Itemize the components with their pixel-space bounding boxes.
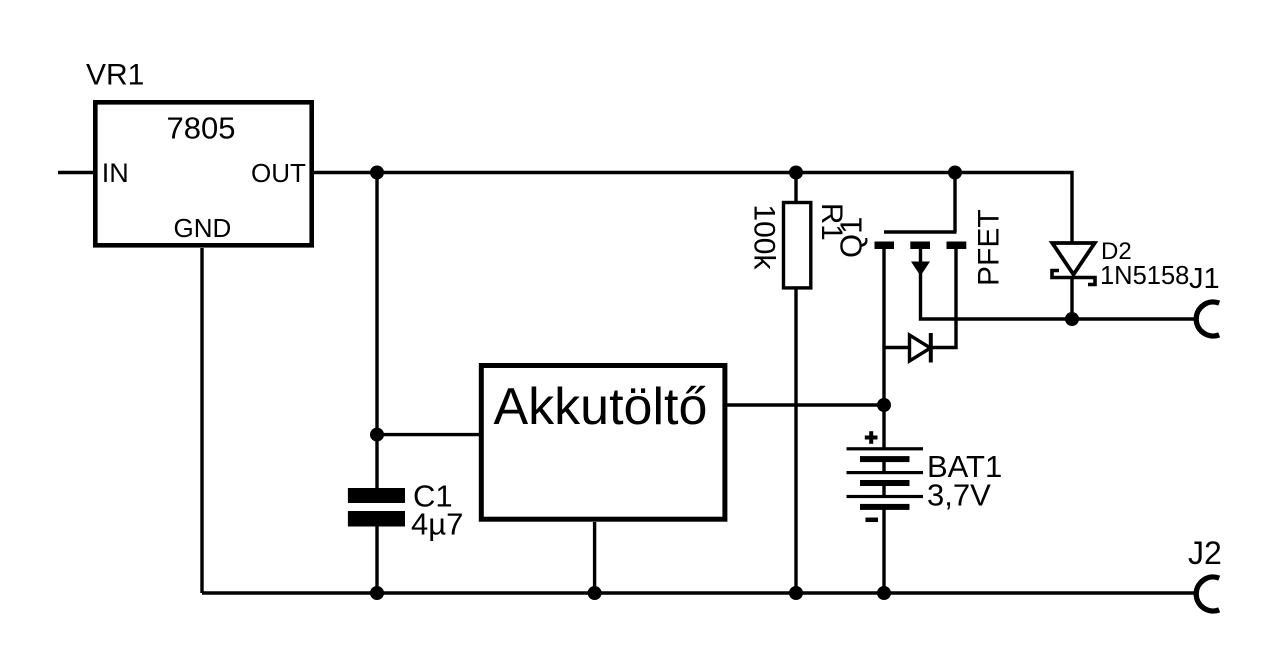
wire +5V rail from OUT	[314, 173, 1072, 244]
svg-text:D2: D2	[1101, 238, 1132, 265]
wire to Akkutolto input	[377, 433, 481, 436]
battery BAT1 short plate 3	[860, 504, 910, 510]
wire PFET drain lead	[882, 249, 885, 448]
wire battery bottom lead	[882, 510, 885, 594]
transistor Q1 PFET channel bar bulk	[910, 242, 930, 250]
charger box Akkutolto	[481, 366, 725, 520]
battery BAT1 long plate 1	[847, 447, 924, 450]
wire R1 top lead	[794, 173, 797, 203]
svg-text:Q1: Q1	[834, 217, 869, 258]
diode D2 triangle	[1052, 243, 1094, 275]
wire PFET source lead	[931, 249, 957, 348]
junction node ground C1	[370, 586, 384, 600]
junction node D2 output	[1065, 312, 1079, 326]
wire ground bus	[202, 591, 1196, 594]
wire C1 branch vertical	[375, 173, 378, 489]
svg-text:Akkutöltő: Akkutöltő	[494, 378, 708, 436]
junction node ground R1	[789, 586, 803, 600]
voltage regulator VR1 box	[95, 102, 311, 245]
junction node on rail at gate	[948, 166, 962, 180]
svg-text:VR1: VR1	[86, 59, 144, 92]
svg-text:OUT: OUT	[251, 158, 306, 188]
transistor Q1 PFET channel bar source	[947, 242, 967, 250]
transistor Q1 PFET gate line	[884, 230, 957, 233]
connector J1	[1196, 302, 1219, 336]
body diode cathode bar	[929, 333, 933, 363]
junction node ground battery	[877, 586, 891, 600]
svg-text:1N5158: 1N5158	[1100, 262, 1189, 290]
junction node battery top	[877, 398, 891, 412]
connector J2	[1196, 577, 1219, 611]
wire D2 cathode lead	[1070, 279, 1073, 319]
svg-text:3,7V: 3,7V	[927, 478, 991, 513]
battery BAT1 long plate 3	[847, 495, 924, 498]
wire input to VR1 IN	[58, 171, 93, 174]
wire PFET bulk to output node	[921, 278, 1197, 319]
diode D2 schottky cathode	[1052, 271, 1095, 285]
battery BAT1 short plate 2	[860, 480, 910, 486]
capacitor C1 plate top	[348, 488, 405, 503]
resistor R1 body	[784, 203, 811, 288]
battery BAT1 minus sign	[866, 518, 879, 523]
svg-text:IN: IN	[102, 158, 129, 188]
svg-text:4µ7: 4µ7	[411, 507, 463, 542]
junction node C1 top	[370, 428, 384, 442]
wire body diode anode	[884, 346, 910, 349]
body diode triangle	[910, 335, 931, 361]
battery BAT1 connector 2	[882, 486, 885, 495]
junction node on rail at R1	[789, 166, 803, 180]
battery BAT1 connector 1	[882, 462, 885, 471]
junction node on rail at C1 branch	[370, 166, 384, 180]
wire Akkutolto ground lead	[593, 522, 596, 593]
wire C1 bottom lead	[375, 526, 378, 593]
svg-text:J2: J2	[1188, 535, 1222, 571]
svg-text:7805: 7805	[167, 111, 236, 146]
battery BAT1 plus sign	[865, 431, 878, 444]
svg-text:PFET: PFET	[973, 209, 1006, 286]
junction node ground charger	[588, 586, 602, 600]
svg-text:GND: GND	[174, 213, 232, 243]
wire R1 bottom lead	[794, 289, 797, 593]
svg-text:J1: J1	[1189, 263, 1220, 295]
wire Akkutolto output to battery node	[727, 403, 884, 406]
battery BAT1 long plate 2	[847, 471, 924, 474]
transistor Q1 PFET bulk arrow	[911, 262, 930, 277]
battery BAT1 short plate 1	[860, 456, 910, 462]
svg-text:100k: 100k	[748, 204, 781, 270]
wire gate lead vertical	[953, 173, 956, 233]
wire GND lead of VR1	[200, 248, 203, 593]
transistor Q1 PFET bulk lead	[919, 249, 922, 278]
transistor Q1 PFET channel bar drain	[875, 242, 895, 250]
capacitor C1 plate bottom	[348, 511, 405, 527]
